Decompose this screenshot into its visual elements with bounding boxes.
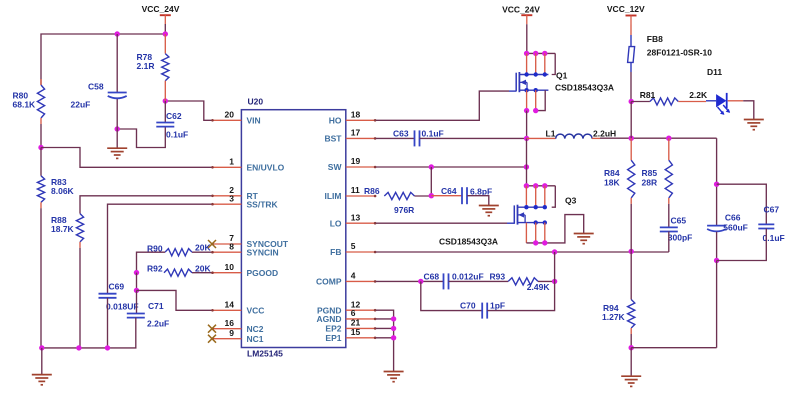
wire VCC24V to top rail (164, 24, 166, 34)
resistor R90 (147, 243, 212, 256)
junction R81 tap (629, 99, 634, 104)
junction Q3 drain 3 (542, 183, 547, 188)
junction bus R88 (76, 345, 81, 350)
wire Q3 source stub 1 (525, 223, 527, 243)
wire RT to R88 (80, 196, 212, 214)
svg-text:LO: LO (330, 218, 342, 228)
ground D11 (744, 120, 764, 130)
pin 9 NC1 (211, 328, 264, 344)
svg-text:D11: D11 (707, 67, 722, 77)
svg-text:R85: R85 (642, 168, 658, 178)
capacitor C67 (758, 204, 784, 243)
svg-text:COMP: COMP (316, 277, 342, 287)
svg-text:C66: C66 (725, 212, 741, 222)
svg-text:1pF: 1pF (490, 301, 505, 311)
wire C66 column to ground row (716, 261, 718, 348)
junction EP2 (391, 326, 396, 331)
svg-text:0.1uF: 0.1uF (166, 130, 188, 140)
capacitor C70 (460, 301, 505, 319)
pin 6 AGND (316, 308, 376, 324)
wire Q1 source elbow (536, 90, 546, 110)
wire Q1 drain elbow (552, 53, 556, 74)
junction Q1 drain 2 (533, 51, 538, 56)
junction C67 branch (714, 182, 719, 187)
wire ground bus (42, 347, 137, 349)
svg-text:R81: R81 (640, 90, 656, 100)
wire Q3 source rail (526, 215, 583, 243)
junction Q3 source 2 (533, 240, 538, 245)
wire COMP to C68 (376, 280, 444, 282)
svg-text:1.27K: 1.27K (602, 312, 626, 322)
svg-text:C64: C64 (441, 186, 457, 196)
junction Q1 source 2 (533, 108, 538, 113)
svg-text:19: 19 (351, 156, 361, 166)
svg-text:0.012uF: 0.012uF (452, 271, 484, 281)
LED D11 (706, 67, 730, 115)
svg-text:ILIM: ILIM (325, 191, 342, 201)
wire PGND bus (376, 310, 394, 371)
wire EP1 stub (376, 337, 394, 339)
junction SW-ILIM tap (429, 164, 434, 169)
ground R94 (621, 348, 641, 387)
svg-text:22uF: 22uF (71, 100, 91, 110)
wire C66 bottom (716, 232, 718, 261)
transistor Q1 (516, 71, 614, 93)
svg-text:560uF: 560uF (723, 222, 748, 232)
resistor R78 (137, 34, 169, 101)
junction C58 top (115, 31, 120, 36)
wire FB8 column to output (630, 102, 632, 139)
inductor L1 (527, 128, 617, 138)
wire Q3 drain stub 1 (525, 186, 527, 207)
svg-text:R92: R92 (147, 264, 163, 274)
wire Q3 gate stub (507, 222, 514, 224)
wire VCC pin jog (137, 290, 212, 310)
svg-text:PGOOD: PGOOD (247, 268, 279, 278)
junction EP1 (391, 335, 396, 340)
svg-text:LM25145: LM25145 (247, 348, 283, 358)
junction ILIM (429, 193, 434, 198)
svg-text:R86: R86 (364, 186, 380, 196)
svg-text:C67: C67 (764, 204, 780, 214)
svg-text:3: 3 (229, 193, 234, 203)
wire C58 bottom (116, 98, 118, 130)
svg-text:C58: C58 (88, 82, 104, 92)
pin 18 HO (329, 110, 377, 126)
wire C67 branch bottom (717, 229, 767, 261)
wire C70 branch right (487, 281, 554, 310)
pin 15 EP1 (325, 327, 376, 343)
pin 3 SS/TRK (211, 193, 278, 209)
wire D11 to ground (743, 101, 754, 120)
wire Q1 source stub 2 (535, 90, 537, 110)
svg-text:300pF: 300pF (668, 232, 693, 242)
svg-text:R93: R93 (490, 271, 506, 281)
wire HO to Q1 gate (376, 91, 509, 120)
wire C58 column (116, 34, 118, 93)
svg-text:CSD18543Q3A: CSD18543Q3A (555, 83, 614, 93)
wire FB row (376, 251, 669, 253)
junction R78 bottom (163, 98, 168, 103)
power VCC_24V (over Q1) (502, 5, 540, 25)
svg-text:C71: C71 (148, 301, 164, 311)
wire VCC column (136, 273, 138, 291)
svg-text:1: 1 (229, 157, 234, 167)
junction SW/BST/L1 (524, 136, 529, 141)
svg-text:HO: HO (329, 116, 342, 126)
wire ILIM tap (430, 167, 432, 196)
junction bus C69 (105, 345, 110, 350)
ferrite bead FB8 (628, 25, 713, 73)
wire output to C66 column (716, 138, 718, 225)
junction EN divider (38, 145, 43, 150)
resistor R86 (364, 186, 415, 215)
resistor R88 (51, 214, 84, 348)
no-connect X pin 16 (208, 325, 216, 333)
svg-text:C65: C65 (671, 215, 687, 225)
svg-text:VCC_24V: VCC_24V (502, 5, 540, 15)
junction COMP (418, 279, 423, 284)
junction Q3 drain 1 (524, 183, 529, 188)
wire C62 bottom to C58 ground jog (117, 127, 165, 148)
junction Q3 source 3 (542, 240, 547, 245)
svg-text:2.1R: 2.1R (137, 61, 155, 71)
junction SW column (524, 164, 529, 169)
junction AGND (391, 316, 396, 321)
svg-text:C68: C68 (424, 271, 440, 281)
svg-text:VCC: VCC (247, 306, 265, 316)
wire C68 to R93 (449, 280, 509, 282)
svg-text:C70: C70 (460, 301, 476, 311)
pin 8 SYNCIN (211, 241, 278, 257)
svg-text:SW: SW (328, 162, 343, 172)
svg-text:16: 16 (225, 318, 235, 328)
wire SW column lower (526, 138, 528, 185)
power VCC_24V (left) (142, 4, 180, 24)
junction R94 bottom (629, 345, 634, 350)
wire Q3 drain stub 2 (535, 186, 537, 207)
ground Q3 source (574, 234, 594, 244)
junction output R84 (629, 136, 634, 141)
wire Q3 drain rail (526, 185, 555, 187)
pin 1 EN/UVLO (211, 157, 284, 173)
svg-text:SS/TRK: SS/TRK (247, 199, 279, 209)
wire R90 left (137, 252, 166, 272)
svg-text:CSD18543Q3A: CSD18543Q3A (439, 237, 498, 247)
svg-text:6: 6 (351, 308, 356, 318)
ground below C58 (107, 129, 127, 158)
wire output rail (600, 137, 717, 139)
junction R93 right (552, 279, 557, 284)
svg-text:2.2uF: 2.2uF (147, 319, 169, 329)
wire SW column upper (526, 111, 528, 139)
ground below C64 (479, 206, 499, 216)
svg-text:0.018UF: 0.018UF (106, 301, 139, 311)
svg-text:18: 18 (351, 110, 361, 120)
pin 4 COMP (316, 271, 376, 287)
svg-text:10: 10 (225, 262, 235, 272)
wire C71 bottom (135, 318, 137, 348)
svg-text:2.2uH: 2.2uH (593, 128, 616, 138)
wire LO to Q3 gate (376, 222, 507, 224)
junction Q1 source 1 (524, 108, 529, 113)
svg-text:VCC_12V: VCC_12V (607, 4, 645, 14)
junction C58 bottom (115, 126, 120, 131)
junction Q1 drain 3 (542, 51, 547, 56)
wire C64 to ground (467, 196, 489, 206)
resistor R84 (604, 138, 635, 251)
capacitor C69 (99, 281, 139, 311)
wire BST to C63 (376, 137, 415, 139)
svg-text:SYNCIN: SYNCIN (247, 247, 279, 257)
svg-text:Q1: Q1 (556, 71, 568, 81)
resistor R83 (37, 148, 74, 348)
pin 12 PGND (317, 299, 376, 315)
wire C69 bottom (107, 298, 109, 348)
resistor R94 (602, 251, 635, 347)
svg-text:C69: C69 (109, 281, 125, 291)
svg-text:15: 15 (351, 327, 361, 337)
wire Q1 gate stub (509, 90, 516, 92)
resistor R80 (13, 79, 45, 148)
wire Q3 drain elbow (552, 186, 556, 207)
resistor R81 (631, 90, 708, 105)
op-amp U20 LM25145 body (241, 110, 345, 348)
svg-text:6.8pF: 6.8pF (470, 186, 492, 196)
junction FB comp (552, 249, 557, 254)
transistor Q3 (439, 195, 577, 246)
wire EP2 stub (376, 327, 394, 329)
svg-text:5: 5 (351, 241, 356, 251)
wire Q3 source stub 2 (535, 223, 537, 243)
pin 17 BST (325, 128, 377, 144)
wire AGND stub (376, 318, 394, 320)
capacitor C63 (393, 129, 444, 147)
wire C63 to SW node (420, 137, 527, 139)
capacitor C66 (707, 212, 748, 232)
resistor R92 (147, 263, 212, 276)
svg-text:8: 8 (229, 241, 234, 251)
svg-text:BST: BST (325, 134, 343, 144)
wire Q3 source stub 3 (544, 223, 546, 243)
svg-text:NC2: NC2 (247, 324, 264, 334)
svg-text:18.7K: 18.7K (51, 224, 75, 234)
capacitor C62 (156, 111, 188, 140)
svg-text:0.1uF: 0.1uF (422, 129, 444, 139)
power VCC_12V (607, 4, 645, 25)
pin 11 ILIM (325, 185, 377, 201)
wire C67 branch top (717, 184, 767, 224)
svg-text:L1: L1 (546, 129, 556, 139)
wire R94 ground row (631, 347, 716, 349)
pin 14 VCC (211, 300, 264, 316)
pin 7 SYNCOUT (211, 233, 289, 249)
wire top rail R80/C58/R78 (41, 34, 165, 85)
junction Q1 drain 1 (524, 51, 529, 56)
junction Q3 drain 2 (533, 183, 538, 188)
wire EN node to pin (41, 148, 212, 168)
svg-text:976R: 976R (394, 205, 414, 215)
wire Q1 drain stub 3 (544, 53, 546, 74)
svg-text:C62: C62 (166, 111, 182, 121)
wire C70 branch left (421, 281, 482, 310)
wire SW row (376, 166, 527, 168)
svg-text:FB8: FB8 (647, 34, 663, 44)
wire FB8 to junction (630, 72, 632, 102)
svg-text:FB: FB (330, 247, 341, 257)
svg-text:VCC_24V: VCC_24V (142, 4, 180, 14)
svg-text:EP1: EP1 (325, 333, 341, 343)
wire Q1 drain stub 2 (535, 53, 537, 74)
svg-text:Q3: Q3 (565, 195, 577, 205)
no-connect X pin 7 (208, 240, 216, 248)
wire D11 cathode (728, 100, 744, 102)
svg-text:18K: 18K (604, 178, 620, 188)
wire VCC24V to Q1 drain rail (526, 24, 528, 53)
svg-text:VIN: VIN (247, 116, 261, 126)
wire Q1 source stub 1 (526, 90, 528, 110)
wire R86 right (415, 195, 432, 197)
junction R92 left (134, 270, 139, 275)
wire SS/TRK to C69 (108, 204, 212, 294)
svg-text:2.2K: 2.2K (689, 90, 708, 100)
wire C62 column top (164, 101, 166, 123)
svg-text:68.1K: 68.1K (13, 100, 37, 110)
capacitor C64 (441, 186, 492, 204)
pin 19 SW (328, 156, 377, 172)
junction R78 top (163, 31, 168, 36)
pin 16 NC2 (211, 318, 264, 334)
pin 10 PGOOD (211, 262, 278, 278)
resistor R85 (642, 138, 673, 227)
pin 2 RT (211, 185, 258, 201)
svg-text:4: 4 (351, 271, 356, 281)
wire Q3 drain stub 3 (544, 186, 546, 207)
wire comp to FB (554, 252, 556, 281)
svg-text:EN/UVLO: EN/UVLO (247, 163, 285, 173)
pin 5 FB (330, 241, 376, 257)
svg-text:8.06K: 8.06K (51, 186, 75, 196)
svg-text:9: 9 (229, 328, 234, 338)
wire Q1 drain rail (527, 52, 556, 54)
ground left bus (32, 348, 52, 385)
svg-text:14: 14 (225, 300, 235, 310)
ground AGND (384, 372, 404, 382)
svg-text:C63: C63 (393, 129, 409, 139)
svg-text:AGND: AGND (316, 314, 341, 324)
svg-text:13: 13 (351, 212, 361, 222)
wire ILIM to C64 (431, 195, 462, 197)
pin 13 LO (330, 212, 377, 228)
junction FB divider (629, 249, 634, 254)
svg-text:U20: U20 (248, 96, 264, 106)
svg-text:R84: R84 (604, 168, 620, 178)
svg-text:17: 17 (351, 128, 361, 138)
no-connect X pin 9 (208, 335, 216, 343)
junction output R85 (666, 136, 671, 141)
junction bus R83 (39, 345, 44, 350)
capacitor C68 (424, 271, 484, 289)
svg-text:NC1: NC1 (247, 334, 264, 344)
svg-text:28F0121-0SR-10: 28F0121-0SR-10 (647, 47, 712, 57)
capacitor C58 (71, 82, 127, 110)
junction C66 bottom (714, 258, 719, 263)
pin 20 VIN (211, 110, 260, 126)
capacitor C65 (660, 215, 693, 242)
wire Q1 drain stub 1 (526, 53, 528, 74)
svg-text:28R: 28R (642, 178, 658, 188)
wire C65 bottom (668, 232, 670, 253)
capacitor C71 (127, 290, 169, 328)
junction C71 top (134, 288, 139, 293)
svg-text:20K: 20K (195, 263, 211, 273)
resistor R93 (490, 271, 551, 292)
wire R93 right (538, 280, 555, 282)
svg-text:2.49K: 2.49K (527, 282, 551, 292)
svg-text:20: 20 (225, 110, 235, 120)
wire R78 to VIN jog (165, 101, 212, 120)
pin 21 EP2 (325, 318, 376, 334)
svg-text:11: 11 (351, 185, 360, 195)
